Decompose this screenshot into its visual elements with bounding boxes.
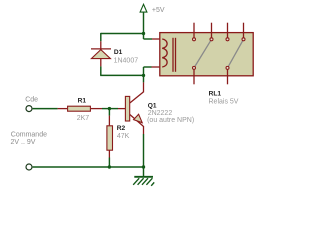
svg-text:(ou autre NPN): (ou autre NPN) [147,117,194,124]
wire collector vertical [143,75,145,82]
node R2 bottom junction [108,165,111,168]
wire R1 to base junction [91,108,102,110]
pin 2 top [211,23,213,38]
svg-text:47K: 47K [117,133,130,140]
emitter lead [130,115,144,127]
pin 1 top [193,23,195,38]
node collector junction [142,74,145,77]
collector lead [130,92,144,103]
pin 6 bottom [227,69,229,84]
blade 1 [194,39,212,68]
svg-text:Commande: Commande [11,132,47,139]
resistor R1 [68,106,91,111]
node emitter junction [142,165,145,168]
power +5V arrow [140,4,147,33]
coil [162,39,167,67]
svg-text:2N2222: 2N2222 [148,110,173,117]
wire relay coil bottom [152,66,163,68]
resistor R2 [107,126,113,150]
svg-text:+5V: +5V [152,7,165,14]
pin 4 top [243,23,245,38]
diode D1 [91,49,111,59]
relay RL1 [160,23,253,85]
svg-text:2K7: 2K7 [77,115,90,122]
svg-text:R1: R1 [78,97,87,104]
ground [133,177,154,186]
svg-text:1N4007: 1N4007 [114,57,139,64]
core bars [172,38,174,72]
wire emitter vertical [143,126,145,134]
svg-text:D1: D1 [114,49,123,56]
emitter arrow [134,114,143,123]
svg-text:R2: R2 [117,125,126,132]
svg-text:Q1: Q1 [148,102,157,109]
pin 5 bottom [193,69,195,84]
svg-text:Cde: Cde [25,97,38,104]
svg-text:RL1: RL1 [209,91,222,98]
blade 2 [228,39,244,68]
wire +5V junction to relay coil top [143,34,145,40]
terminal Commande [26,164,32,170]
wire bottom rail [33,166,144,168]
wire Cde to R1 [33,108,58,110]
wire diode bottom lead [100,59,102,67]
terminal Cde [26,106,32,112]
wire diode top lead [100,33,102,41]
wire to ground [143,167,145,176]
pin 3 top [227,23,229,38]
node +5V junction [142,32,145,35]
svg-text:Relais 5V: Relais 5V [209,98,239,105]
wire R2 bottom lead [108,151,110,158]
svg-text:2V .. 9V: 2V .. 9V [11,139,36,146]
transistor Q1 [125,92,143,126]
wire diode anode to collector node [100,74,143,76]
wire base junction down to R2 [108,109,110,116]
wire top rail [101,33,144,35]
node base junction [108,107,111,110]
